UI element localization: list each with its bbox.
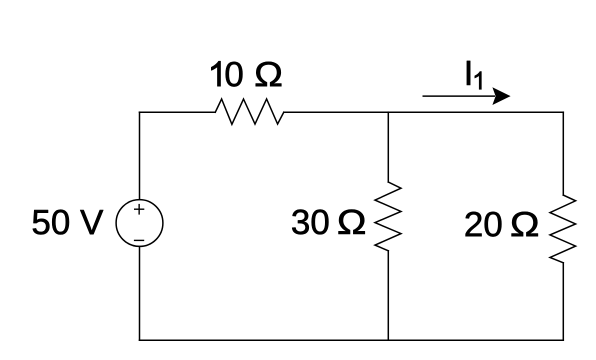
resistor 10 ohm (zigzag) bbox=[215, 99, 283, 124]
wire: middle vertical, bottom segment bbox=[387, 251, 389, 340]
wire: right vertical, top segment bbox=[562, 112, 564, 195]
voltage source plus sign bbox=[134, 208, 144, 210]
wire: left vertical, bottom segment bbox=[139, 247, 141, 341]
resistor 30 ohm (zigzag) bbox=[375, 182, 401, 251]
voltage source minus sign bbox=[134, 239, 144, 241]
voltage source V1 (circle) bbox=[116, 200, 163, 247]
label: I subscript 1 bbox=[475, 72, 482, 90]
wire: top horizontal, right segment bbox=[284, 111, 563, 113]
wire: left vertical, top segment bbox=[139, 112, 141, 199]
wire: top horizontal, left segment bbox=[140, 111, 216, 113]
current arrow I1 shaft bbox=[423, 95, 496, 97]
resistor 20 ohm (zigzag) bbox=[550, 195, 576, 263]
current arrow I1 head bbox=[492, 87, 510, 105]
wire: right vertical, bottom segment bbox=[562, 263, 564, 340]
label: 50 V bbox=[33, 210, 50, 234]
label: I bbox=[467, 61, 470, 85]
wire: bottom horizontal bbox=[140, 339, 564, 341]
label: 10 ohm bbox=[211, 61, 220, 86]
wire: middle vertical, top segment bbox=[387, 112, 389, 182]
label: 20 ohm bbox=[466, 212, 482, 236]
label: 30 ohm bbox=[292, 210, 309, 235]
